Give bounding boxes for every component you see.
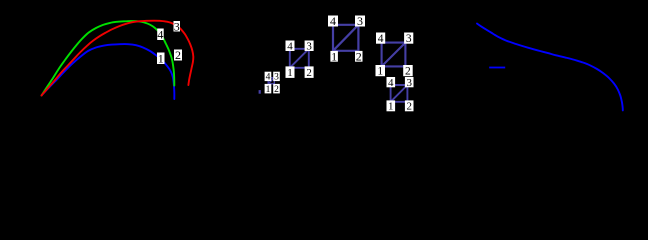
- svg-text:4: 4: [378, 33, 384, 45]
- graph A (tiny): [259, 90, 261, 94]
- svg-text:3: 3: [174, 19, 180, 33]
- svg-text:3: 3: [357, 14, 363, 28]
- curve label 1: [157, 53, 165, 65]
- svg-text:3: 3: [406, 77, 412, 89]
- svg-text:1: 1: [331, 49, 337, 63]
- trajectory curve 1 (blue): [42, 44, 175, 99]
- graph B square: [268, 78, 274, 84]
- svg-text:4: 4: [157, 27, 163, 41]
- svg-text:4: 4: [266, 73, 271, 83]
- svg-text:4: 4: [330, 14, 336, 28]
- curve label 4: [157, 29, 164, 41]
- svg-text:2: 2: [175, 48, 181, 62]
- legend dash: [489, 67, 505, 69]
- svg-text:3: 3: [274, 73, 279, 83]
- svg-text:3: 3: [406, 33, 412, 45]
- graph F square: [391, 85, 408, 102]
- trajectory curve 2/4 (green): [42, 21, 175, 95]
- trajectory curve 3 (red): [42, 21, 194, 96]
- curve label 2: [174, 50, 182, 61]
- svg-text:4: 4: [287, 41, 293, 53]
- svg-text:1: 1: [377, 66, 383, 78]
- graph C square: [290, 49, 309, 68]
- svg-text:1: 1: [388, 101, 394, 113]
- svg-text:2: 2: [405, 66, 411, 78]
- svg-text:2: 2: [306, 67, 312, 79]
- svg-text:1: 1: [158, 51, 164, 65]
- decay curve (blue): [477, 24, 623, 111]
- svg-text:2: 2: [274, 85, 279, 95]
- svg-text:2: 2: [356, 49, 362, 63]
- svg-text:2: 2: [406, 101, 412, 113]
- svg-text:3: 3: [306, 41, 312, 53]
- graph E square: [382, 43, 406, 67]
- svg-text:4: 4: [388, 77, 394, 89]
- svg-text:1: 1: [266, 85, 271, 95]
- graph D square: [333, 25, 358, 51]
- svg-text:1: 1: [287, 67, 293, 79]
- curve label 3: [174, 21, 181, 32]
